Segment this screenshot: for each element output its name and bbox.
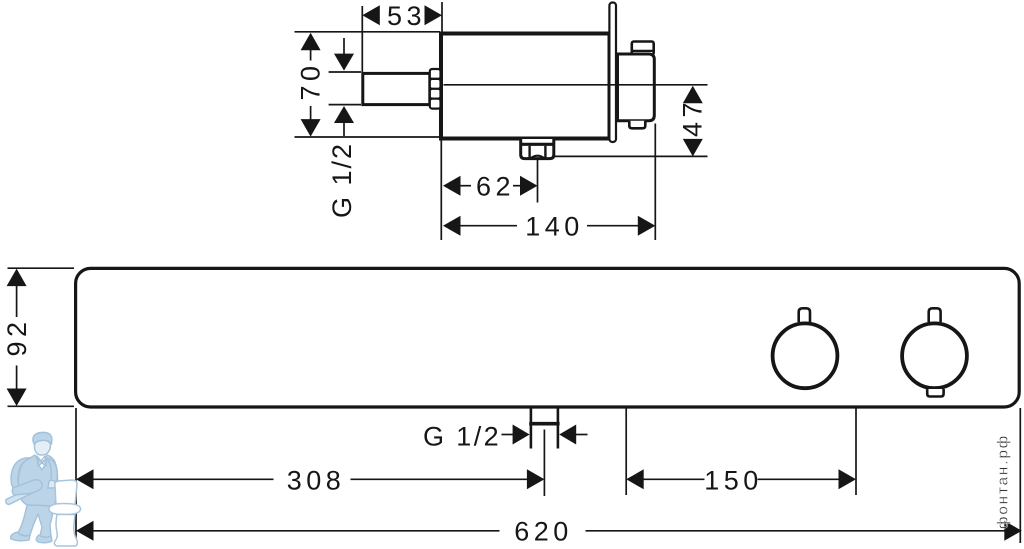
plumber right hand (48, 480, 56, 488)
extension line pipe bottom (329, 104, 361, 106)
wrench handle (6, 486, 37, 505)
nut inner curve (531, 156, 544, 158)
dimension line right segment of dim 150 (758, 478, 839, 480)
arrow right of dim 53 (425, 5, 443, 25)
left knob top tab (799, 308, 810, 322)
svg-text:620: 620 (514, 517, 573, 547)
svg-text:150: 150 (704, 465, 763, 495)
extension line top of dim 92 (8, 267, 75, 269)
extension line outlet center (537, 159, 539, 203)
nut facet line left (528, 146, 530, 158)
knob top tab inner line (631, 50, 654, 52)
control knob (side view) (618, 54, 655, 121)
arrow left of dim 62 (443, 176, 461, 196)
extension line top of dim 70 (295, 31, 441, 33)
arrow right of dim 140 (638, 216, 656, 236)
plumber bowtie (38, 459, 46, 466)
dimension line upper segment of dim 70 (310, 50, 312, 61)
DIMENSION 150 (626, 408, 856, 495)
extension line left of dim 53 (361, 6, 363, 72)
svg-text:92: 92 (2, 317, 32, 356)
mixer body (side view) (441, 34, 610, 139)
watermark toilet (49, 480, 81, 546)
arrow up of dim 92 (7, 269, 27, 287)
G1/2 CALLOUT FRONT VIEW (423, 422, 588, 452)
arrow right of dim 150 (839, 469, 857, 489)
svg-text:62: 62 (476, 172, 515, 202)
knob top tab (side view) (632, 42, 654, 55)
plumber trousers and legs (18, 505, 54, 538)
nut facet line right (544, 146, 546, 158)
FRONT VIEW (76, 268, 1020, 448)
leader line below arrow (343, 122, 345, 136)
dimension line left segment of dim 140 (460, 225, 517, 227)
extension line left of dim 140 (440, 139, 442, 241)
arrow down of dim 70 (301, 119, 321, 137)
arrow up to pipe bottom (334, 106, 354, 123)
extension line bottom of dim 92 (8, 405, 75, 407)
DIMENSION 308 (76, 408, 544, 545)
left knob (front view) (773, 323, 838, 388)
toilet tank (55, 480, 77, 505)
arrow down of dim 47 (683, 139, 703, 157)
DIMENSION 620 (76, 408, 1022, 547)
DIMENSION 53 (362, 1, 442, 72)
extension line right of dim 620 (1019, 408, 1021, 543)
svg-text:308: 308 (287, 465, 346, 495)
arrow left of dim 620 (76, 521, 94, 541)
arrow left of dim 150 (626, 469, 644, 489)
centerline of body axis (444, 84, 708, 86)
arrow down of dim 92 (7, 389, 27, 407)
dimension line right segment of dim 620 (586, 530, 1005, 532)
svg-text:70: 70 (296, 61, 326, 100)
inlet pipe stub G1/2 (363, 73, 430, 104)
watermark plumber figure (6, 432, 58, 542)
DIMENSION 92 (2, 268, 74, 406)
dimension line right segment of dim 308 (351, 478, 528, 480)
svg-text:фонтан.рф: фонтан.рф (995, 434, 1012, 529)
DIMENSION 47 (678, 86, 708, 157)
plumber right arm (47, 459, 57, 485)
arrow right toward outlet left (513, 425, 530, 445)
extension line right of dim 140 (654, 124, 656, 241)
arrow right of dim 620 (1004, 521, 1022, 541)
arrow left toward outlet right (559, 425, 576, 445)
dimension line lower segment of dim 70 (310, 106, 312, 121)
plumber jacket torso (18, 455, 57, 506)
G1/2 CALLOUT SIDE VIEW (327, 38, 361, 218)
DIMENSION 70 (295, 32, 441, 137)
plumber left shoe (11, 532, 30, 541)
shower tablet bar (front view) (76, 268, 1020, 407)
arrow left of dim 308 (76, 469, 94, 489)
plumber shirt (37, 456, 46, 470)
extension line right of dim 53 (441, 2, 443, 32)
toilet seat rim (49, 504, 81, 515)
arrow left of dim 140 (443, 216, 461, 236)
arrow right of dim 62 (520, 176, 538, 196)
toilet pedestal (54, 515, 77, 547)
dimension line right segment of dim 140 (587, 225, 639, 227)
wall plate (609, 3, 616, 143)
arrow right of dim 308 (527, 469, 545, 489)
DIMENSION 62 (443, 159, 538, 203)
dimension line upper segment of dim 92 (16, 285, 18, 317)
svg-text:G 1/2: G 1/2 (327, 142, 357, 218)
right knob (front view) (902, 323, 967, 388)
extension line left of dim 150 (625, 408, 627, 495)
dimension line left segment of dim 308 (93, 478, 274, 480)
arrow up of dim 47 (683, 86, 703, 104)
outlet fitting nut line (529, 422, 559, 426)
DIMENSION 140 (441, 124, 655, 242)
dimension line left segment of dim 620 (93, 530, 500, 532)
plumber hair (33, 432, 52, 445)
extension line bar left (75, 408, 77, 545)
extension line outlet center front (543, 430, 545, 497)
outlet fitting right edge (front view) (557, 408, 560, 449)
arrow down to pipe top (334, 54, 354, 71)
SIDE VIEW (363, 3, 708, 159)
arrow up of dim 70 (301, 33, 321, 51)
extension line bottom of dim 70 (295, 136, 441, 138)
svg-text:G 1/2: G 1/2 (423, 422, 501, 452)
leader line above arrow (343, 38, 345, 55)
extension line pipe top (329, 71, 361, 73)
outlet fitting left edge (front view) (530, 408, 533, 449)
svg-text:53: 53 (387, 1, 426, 31)
bottom outlet nut (side view) (521, 139, 554, 159)
plumber left arm (11, 458, 30, 490)
knob bottom tab (side view) (629, 121, 645, 129)
right knob top tab (929, 308, 941, 322)
plumber right shoe (36, 535, 52, 543)
dimension line left segment of dim 150 (644, 478, 705, 480)
leader line right (576, 434, 588, 436)
wrench head and hand (12, 480, 42, 495)
svg-text:47: 47 (678, 98, 708, 137)
plumber face (34, 440, 50, 455)
right knob bottom tab (927, 389, 943, 397)
nut flange line (520, 143, 556, 146)
arrow left of dim 53 (362, 5, 380, 25)
dimension line lower segment of dim 92 (16, 366, 18, 391)
leader line left (502, 434, 514, 436)
extension line right of dim 150 (855, 408, 857, 495)
extension line bottom of knob for dim 47 (554, 155, 708, 157)
dimension line right segment of dim 62 (513, 185, 521, 187)
thread rings on pipe stub (430, 69, 441, 109)
svg-text:140: 140 (525, 212, 584, 242)
dimension line left segment of dim 62 (460, 185, 471, 187)
